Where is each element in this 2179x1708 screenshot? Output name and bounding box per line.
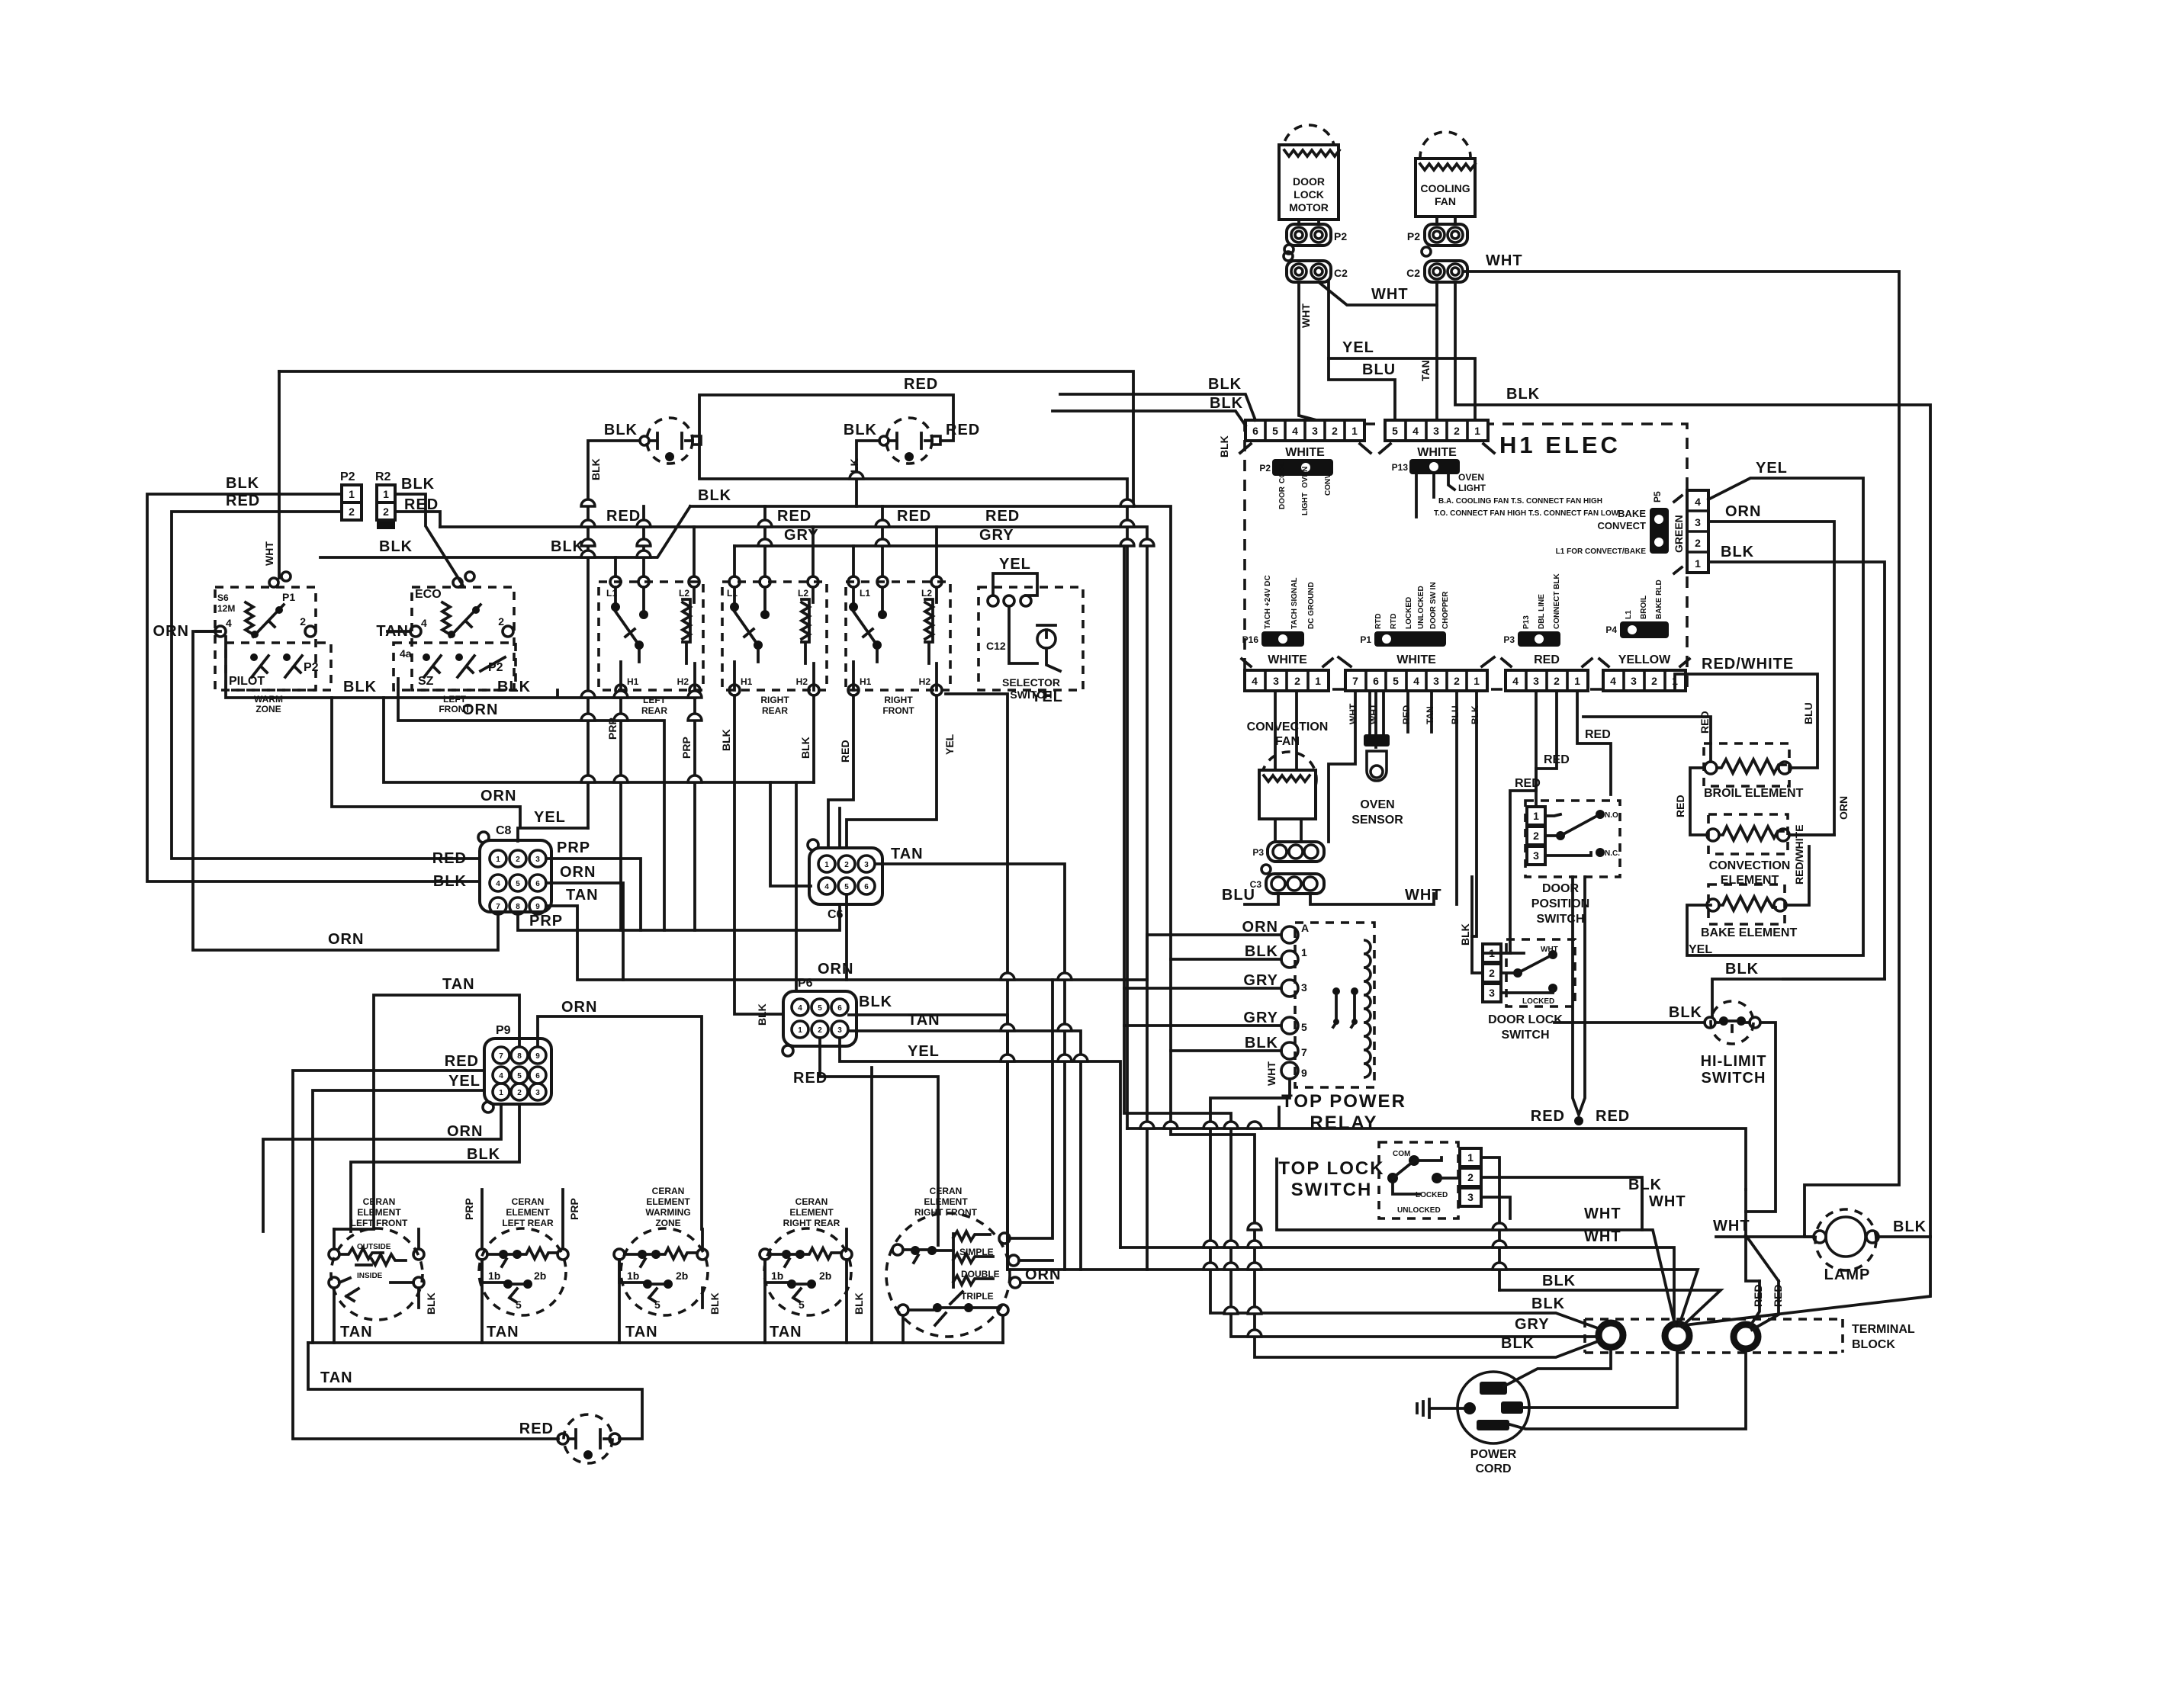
- svg-text:MOTOR: MOTOR: [1289, 201, 1329, 213]
- C8 connector: [478, 824, 551, 914]
- conv element right wire: [1789, 833, 1834, 836]
- svg-text:HI-LIMIT: HI-LIMIT: [1701, 1053, 1767, 1070]
- svg-text:WHITE: WHITE: [1268, 653, 1307, 666]
- svg-text:ORN: ORN: [447, 1123, 483, 1140]
- svg-text:POWER: POWER: [1470, 1448, 1517, 1461]
- svg-text:2: 2: [349, 506, 355, 518]
- svg-text:P2: P2: [1407, 230, 1420, 242]
- svg-text:WHT: WHT: [1486, 252, 1523, 269]
- svg-text:ZONE: ZONE: [256, 704, 281, 714]
- svg-text:SZ: SZ: [418, 675, 434, 688]
- svg-text:RTD: RTD: [1374, 613, 1383, 629]
- ceran element warming zone: [614, 1186, 708, 1315]
- svg-text:CONVECTION: CONVECTION: [1709, 859, 1791, 872]
- svg-text:5: 5: [654, 1299, 660, 1311]
- P9 connector: [263, 976, 702, 1439]
- svg-text:YEL: YEL: [448, 1073, 480, 1090]
- svg-text:4: 4: [798, 1004, 802, 1013]
- svg-text:P5: P5: [1652, 491, 1663, 502]
- oven sensor: [1351, 691, 1403, 827]
- svg-text:H1: H1: [627, 676, 639, 687]
- svg-text:CONVECTION: CONVECTION: [1247, 721, 1329, 734]
- svg-text:WHITE: WHITE: [1417, 446, 1457, 459]
- svg-text:RED: RED: [1772, 1284, 1784, 1307]
- long TAN wire to push switch: [308, 1343, 642, 1439]
- terminal 1: [1599, 1323, 1623, 1347]
- svg-text:ORN: ORN: [480, 788, 516, 804]
- svg-text:GRY: GRY: [1243, 1010, 1278, 1026]
- svg-text:CONNECT BLK: CONNECT BLK: [1553, 573, 1561, 629]
- svg-text:RED: RED: [1515, 777, 1541, 790]
- svg-text:6: 6: [837, 1004, 842, 1013]
- svg-text:CONV: CONV: [1324, 474, 1332, 496]
- svg-text:DOOR: DOOR: [1278, 486, 1287, 509]
- WHT drop to pilot: [278, 371, 281, 578]
- svg-text:5: 5: [799, 1299, 805, 1311]
- svg-text:YEL: YEL: [1756, 460, 1788, 477]
- svg-text:RIGHT: RIGHT: [760, 695, 789, 705]
- infinite switch RIGHT FRONT: [828, 506, 956, 856]
- ceran element left rear: [477, 1196, 568, 1315]
- svg-text:RELAY: RELAY: [1310, 1112, 1377, 1133]
- svg-text:3: 3: [864, 861, 869, 869]
- svg-text:2: 2: [516, 856, 520, 864]
- svg-text:2: 2: [1695, 537, 1701, 549]
- svg-text:2: 2: [1651, 675, 1657, 687]
- svg-text:4: 4: [496, 880, 500, 888]
- power cord: [1417, 1350, 1746, 1475]
- svg-text:6: 6: [1252, 425, 1258, 437]
- wire TAN cooling C2 left down to P13 pin3: [1435, 282, 1438, 420]
- ceran element right rear: [760, 1196, 852, 1315]
- svg-text:6: 6: [864, 883, 869, 891]
- svg-text:1: 1: [798, 1026, 802, 1035]
- svg-text:2: 2: [498, 615, 504, 628]
- svg-text:WHT: WHT: [1541, 945, 1558, 954]
- svg-text:9: 9: [535, 903, 540, 911]
- svg-text:BLU: BLU: [1222, 887, 1255, 904]
- svg-text:OVEN: OVEN: [1360, 798, 1394, 811]
- svg-text:R2: R2: [375, 470, 391, 483]
- svg-text:1: 1: [824, 861, 829, 869]
- svg-text:WHT: WHT: [1584, 1228, 1621, 1245]
- svg-text:RED: RED: [519, 1421, 554, 1437]
- push switch bottom: [519, 1414, 620, 1463]
- svg-text:TAN: TAN: [625, 1324, 658, 1340]
- svg-text:RED: RED: [1534, 653, 1560, 666]
- svg-text:DOOR SW IN: DOOR SW IN: [1429, 582, 1438, 629]
- lamp: [1805, 1209, 1930, 1283]
- svg-text:BLK: BLK: [1669, 1004, 1702, 1021]
- svg-text:RED: RED: [897, 508, 931, 525]
- drops from elements up: [480, 1189, 484, 1249]
- convection element: [1707, 814, 1790, 887]
- svg-text:3: 3: [1489, 987, 1495, 999]
- svg-text:5: 5: [1393, 675, 1399, 687]
- door lock motor: [1279, 125, 1339, 220]
- svg-text:3: 3: [1467, 1191, 1474, 1203]
- svg-text:POSITION: POSITION: [1531, 897, 1589, 910]
- svg-text:2: 2: [1489, 967, 1495, 979]
- svg-text:P2: P2: [488, 661, 503, 674]
- svg-text:5: 5: [1301, 1021, 1307, 1033]
- svg-text:2b: 2b: [676, 1270, 688, 1282]
- svg-text:BLK: BLK: [720, 729, 732, 751]
- svg-text:SIMPLE: SIMPLE: [959, 1247, 994, 1257]
- svg-text:P1: P1: [1360, 634, 1371, 645]
- svg-text:WHT: WHT: [1371, 286, 1409, 303]
- svg-text:L1: L1: [727, 588, 738, 599]
- svg-text:LOCKED: LOCKED: [1416, 1191, 1448, 1199]
- svg-text:PRP: PRP: [529, 913, 563, 929]
- svg-text:5: 5: [1392, 425, 1398, 437]
- svg-text:1: 1: [1574, 675, 1580, 687]
- svg-text:OVEN: OVEN: [1301, 467, 1310, 488]
- R2 connector: [375, 470, 439, 529]
- svg-text:BLK: BLK: [799, 737, 812, 759]
- svg-text:RED: RED: [1596, 1108, 1630, 1125]
- svg-text:GRY: GRY: [979, 527, 1014, 544]
- RED/WHITE wire from P4 pin1 to broil right: [1675, 674, 1817, 768]
- bottom strip P4 (4 3 2 1) YELLOW: [1599, 579, 1689, 691]
- svg-text:CORD: CORD: [1475, 1462, 1511, 1475]
- infinite switch RIGHT REAR: [720, 506, 827, 1014]
- svg-text:SENSOR: SENSOR: [1351, 814, 1403, 827]
- svg-text:2: 2: [818, 1026, 822, 1035]
- svg-text:L1: L1: [860, 588, 870, 599]
- svg-text:9: 9: [1301, 1067, 1307, 1079]
- svg-text:RED: RED: [445, 1053, 479, 1070]
- svg-text:BLK: BLK: [1531, 1295, 1565, 1312]
- svg-text:WHT: WHT: [1265, 1061, 1278, 1086]
- svg-text:BLK: BLK: [1245, 1035, 1278, 1051]
- svg-text:INSIDE: INSIDE: [357, 1272, 383, 1280]
- svg-text:ORN: ORN: [818, 961, 853, 978]
- GRY bus y716: [734, 546, 1281, 1026]
- svg-text:FRONT: FRONT: [882, 705, 914, 716]
- svg-text:SWITCH: SWITCH: [1291, 1180, 1373, 1200]
- wire ORN from P5 pin3: [1708, 522, 1834, 835]
- svg-text:BLK: BLK: [1459, 923, 1471, 945]
- connector strip P13 top (5..1): [1380, 420, 1619, 518]
- svg-text:BLOCK: BLOCK: [1852, 1338, 1895, 1351]
- svg-text:P2: P2: [1259, 463, 1271, 474]
- svg-text:TAN: TAN: [891, 846, 924, 862]
- door position switch: [1525, 801, 1621, 926]
- svg-text:4: 4: [1695, 496, 1701, 508]
- svg-text:DC GROUND: DC GROUND: [1307, 582, 1316, 629]
- svg-text:3: 3: [535, 856, 540, 864]
- svg-text:TOP POWER: TOP POWER: [1281, 1091, 1406, 1112]
- svg-text:BLK: BLK: [433, 873, 467, 890]
- svg-text:YELLOW: YELLOW: [1618, 653, 1671, 666]
- BLK line y731: [320, 506, 690, 557]
- svg-text:BLK: BLK: [425, 1292, 437, 1315]
- PRP line under C8: [518, 808, 840, 930]
- svg-text:YEL: YEL: [1342, 339, 1374, 356]
- svg-text:TAN: TAN: [320, 1369, 353, 1386]
- svg-text:1: 1: [1533, 810, 1539, 822]
- svg-text:L1 FOR CONVECT/BAKE: L1 FOR CONVECT/BAKE: [1556, 547, 1647, 556]
- svg-text:RIGHT REAR: RIGHT REAR: [783, 1218, 840, 1228]
- svg-text:PRP: PRP: [557, 840, 590, 856]
- P6 connector: [756, 977, 1120, 1270]
- svg-text:BLK: BLK: [1725, 961, 1759, 978]
- svg-text:C2: C2: [1334, 267, 1348, 279]
- element interconnect wires: [1690, 768, 1707, 835]
- svg-text:BLK: BLK: [1208, 376, 1242, 393]
- svg-text:2: 2: [844, 861, 849, 869]
- svg-text:BROIL: BROIL: [1640, 596, 1648, 619]
- svg-text:LOCKED: LOCKED: [1522, 997, 1554, 1006]
- long top wire: [279, 371, 1133, 506]
- svg-text:RED: RED: [1674, 795, 1686, 817]
- svg-text:3: 3: [1312, 425, 1318, 437]
- svg-text:2: 2: [300, 615, 306, 628]
- svg-text:6: 6: [1373, 675, 1379, 687]
- svg-text:4: 4: [1610, 675, 1616, 687]
- svg-text:6: 6: [535, 880, 540, 888]
- svg-text:PRP: PRP: [568, 1198, 580, 1220]
- svg-text:ECO: ECO: [415, 588, 442, 601]
- svg-text:7: 7: [1352, 675, 1358, 687]
- svg-text:PRP: PRP: [680, 737, 693, 759]
- door lock switch: [1459, 923, 1575, 1042]
- svg-text:N.C.: N.C.: [1605, 849, 1620, 858]
- svg-text:7: 7: [499, 1052, 503, 1061]
- wires into terminal 1: [1210, 1079, 1600, 1329]
- svg-text:ORN: ORN: [153, 623, 189, 640]
- svg-text:P13: P13: [1392, 462, 1409, 473]
- svg-text:COM: COM: [1393, 1150, 1410, 1158]
- svg-text:TACH SIGNAL: TACH SIGNAL: [1290, 577, 1299, 629]
- svg-text:4: 4: [1252, 675, 1258, 687]
- svg-text:ELEMENT: ELEMENT: [646, 1196, 690, 1207]
- cooling fan connector C2: [1406, 261, 1467, 282]
- svg-text:2: 2: [383, 506, 389, 518]
- push switch 1: [588, 418, 701, 828]
- svg-text:ORN: ORN: [1725, 503, 1761, 520]
- svg-text:B.A. COOLING FAN T.S. CONNECT: B.A. COOLING FAN T.S. CONNECT FAN HIGH: [1438, 497, 1602, 506]
- svg-text:6: 6: [535, 1072, 540, 1080]
- svg-text:RED: RED: [1531, 1108, 1565, 1125]
- svg-text:L1: L1: [1625, 610, 1633, 619]
- svg-text:P4: P4: [1605, 624, 1617, 635]
- svg-text:LAMP: LAMP: [1824, 1267, 1871, 1283]
- svg-text:2b: 2b: [819, 1270, 831, 1282]
- top power relay: [1281, 922, 1406, 1133]
- terminal block dashed box: [1585, 1319, 1843, 1353]
- hi-limit switch: [1669, 1001, 1767, 1087]
- svg-text:TRIPLE: TRIPLE: [961, 1291, 994, 1302]
- svg-text:BLK: BLK: [590, 458, 602, 480]
- svg-text:TAN: TAN: [340, 1324, 373, 1340]
- svg-text:RED: RED: [1544, 753, 1570, 766]
- svg-text:ELEMENT: ELEMENT: [506, 1207, 550, 1218]
- svg-text:YEL: YEL: [999, 556, 1031, 573]
- svg-text:FAN: FAN: [1435, 195, 1456, 207]
- svg-text:ELEMENT: ELEMENT: [924, 1196, 968, 1207]
- svg-text:YEL: YEL: [1689, 943, 1712, 956]
- svg-text:FAN: FAN: [1275, 735, 1300, 748]
- svg-text:RED: RED: [1401, 705, 1412, 724]
- svg-text:5: 5: [516, 1299, 522, 1311]
- svg-text:WHT: WHT: [1649, 1193, 1686, 1210]
- svg-text:RED/WHITE: RED/WHITE: [1702, 656, 1794, 673]
- svg-text:REAR: REAR: [641, 705, 667, 716]
- svg-text:BLK: BLK: [551, 538, 584, 555]
- svg-text:BLK: BLK: [343, 679, 377, 695]
- svg-text:L2: L2: [679, 588, 689, 599]
- bake right wire up: [1786, 846, 1809, 905]
- svg-text:2: 2: [1533, 830, 1539, 842]
- convection fan: [1222, 721, 1442, 904]
- svg-text:WHT: WHT: [263, 541, 275, 566]
- svg-text:BLK: BLK: [1245, 943, 1278, 960]
- svg-text:A: A: [1301, 922, 1309, 934]
- wire WHT door lock C2 left down to board: [1299, 282, 1316, 420]
- svg-text:CONVECT: CONVECT: [1597, 520, 1646, 531]
- svg-text:C6: C6: [828, 908, 844, 921]
- svg-text:1: 1: [349, 488, 355, 500]
- svg-text:DOOR LOCK: DOOR LOCK: [1488, 1013, 1563, 1026]
- svg-text:1: 1: [1474, 675, 1480, 687]
- svg-text:ELEMENT: ELEMENT: [789, 1207, 834, 1218]
- ORN under C8: [193, 631, 498, 950]
- svg-text:BLK: BLK: [1628, 1177, 1662, 1193]
- svg-text:ORN: ORN: [462, 701, 498, 718]
- svg-text:RED/WHITE: RED/WHITE: [1793, 824, 1805, 884]
- svg-text:3: 3: [1533, 849, 1539, 862]
- selector switch: [946, 556, 1083, 1270]
- svg-text:3: 3: [837, 1026, 842, 1035]
- svg-text:DOUBLE: DOUBLE: [961, 1269, 1000, 1279]
- svg-text:2: 2: [1294, 675, 1300, 687]
- BLK / ORN lines below pilot: [226, 637, 696, 698]
- svg-text:BLK: BLK: [401, 476, 435, 493]
- infinite switch LEFT REAR: [599, 506, 703, 930]
- svg-text:ORN: ORN: [1242, 919, 1278, 936]
- svg-text:UNLOCKED: UNLOCKED: [1417, 586, 1425, 629]
- svg-text:C2: C2: [1406, 267, 1420, 279]
- P16 wires down to convection fan: [1275, 691, 1297, 770]
- svg-text:DOOR: DOOR: [1293, 175, 1325, 188]
- svg-text:LEFT REAR: LEFT REAR: [502, 1218, 554, 1228]
- svg-text:TERMINAL: TERMINAL: [1852, 1323, 1915, 1336]
- svg-text:8: 8: [516, 903, 520, 911]
- RED bus y691: [440, 527, 1147, 1270]
- door lock motor connector C2: [1284, 252, 1348, 282]
- BLK wire bake loop to hi-limit: [1712, 979, 1885, 1017]
- svg-text:1: 1: [499, 1089, 503, 1097]
- TAN bus under elements: [334, 1260, 1003, 1343]
- svg-text:4: 4: [1412, 425, 1419, 437]
- svg-text:3: 3: [1433, 425, 1439, 437]
- svg-text:PRP: PRP: [463, 1198, 475, 1220]
- svg-text:RED: RED: [946, 422, 980, 438]
- terminal 3: [1734, 1324, 1758, 1349]
- svg-text:TAN: TAN: [487, 1324, 519, 1340]
- svg-text:1b: 1b: [488, 1270, 500, 1282]
- svg-text:1: 1: [496, 856, 500, 864]
- wire WHT cooling fan to right edge: [1464, 271, 1899, 1235]
- svg-text:BAKE RLD: BAKE RLD: [1655, 579, 1663, 619]
- broil element: [1704, 743, 1804, 800]
- svg-text:SELECTOR: SELECTOR: [1002, 676, 1060, 689]
- svg-text:BLK: BLK: [756, 1003, 768, 1026]
- GREEN connector P5: [1556, 490, 1708, 573]
- wire YEL from P5 pin4: [1687, 478, 1863, 955]
- svg-text:BLU: BLU: [1450, 705, 1461, 724]
- svg-text:4: 4: [1292, 425, 1298, 437]
- svg-text:BLK: BLK: [709, 1292, 721, 1315]
- svg-text:3: 3: [1301, 981, 1307, 994]
- svg-text:C12: C12: [986, 640, 1006, 652]
- wire WHT into lamp from left: [1716, 1235, 1814, 1238]
- svg-text:H1 ELEC: H1 ELEC: [1499, 432, 1621, 458]
- svg-text:BLK: BLK: [1721, 544, 1754, 560]
- svg-text:RED: RED: [793, 1070, 828, 1087]
- svg-text:BLU: BLU: [1802, 702, 1814, 724]
- svg-text:1: 1: [1301, 946, 1307, 958]
- WHT wire from top lock area down: [1641, 1181, 1644, 1218]
- svg-text:C8: C8: [496, 824, 512, 837]
- wire YEL: [1329, 282, 1475, 420]
- svg-text:P13: P13: [1522, 615, 1531, 629]
- svg-text:COOLING: COOLING: [1420, 182, 1470, 194]
- svg-text:P9: P9: [496, 1024, 511, 1037]
- svg-text:P2: P2: [304, 661, 319, 674]
- svg-text:1: 1: [1474, 425, 1480, 437]
- svg-text:TAN: TAN: [566, 887, 599, 904]
- svg-text:RED: RED: [1585, 728, 1611, 741]
- svg-text:H2: H2: [677, 676, 689, 687]
- wire BLK from P5 pin1: [1708, 562, 1885, 979]
- svg-text:BAKE: BAKE: [1618, 508, 1646, 519]
- svg-text:RED: RED: [432, 850, 467, 867]
- svg-text:WHITE: WHITE: [1285, 446, 1325, 459]
- svg-text:2: 2: [1554, 675, 1560, 687]
- svg-text:WHT: WHT: [1300, 303, 1312, 328]
- svg-text:BLK: BLK: [853, 1292, 865, 1315]
- svg-text:1: 1: [1467, 1151, 1474, 1164]
- H1 ELEC dashed outline: [1245, 424, 1687, 689]
- svg-text:REAR: REAR: [762, 705, 788, 716]
- svg-text:BLK: BLK: [467, 1146, 500, 1163]
- svg-text:RED: RED: [1699, 711, 1711, 734]
- P2 connector (left): [340, 470, 362, 520]
- bottom strip P16 (4 3 2 1) WHITE: [1242, 575, 1332, 691]
- svg-text:3: 3: [535, 1089, 540, 1097]
- svg-text:SWITCH: SWITCH: [1501, 1029, 1549, 1042]
- svg-text:CERAN: CERAN: [652, 1186, 685, 1196]
- svg-text:ELEMENT: ELEMENT: [357, 1207, 401, 1218]
- svg-text:ORN: ORN: [328, 931, 364, 948]
- svg-text:RED: RED: [985, 508, 1020, 525]
- svg-text:2: 2: [1467, 1171, 1474, 1183]
- PILOT inner P2 switch: [226, 643, 331, 690]
- svg-text:WHT: WHT: [1348, 703, 1358, 724]
- svg-text:YEL: YEL: [908, 1043, 940, 1060]
- svg-text:RED: RED: [839, 740, 851, 762]
- C8 right wires: [546, 859, 641, 930]
- svg-text:YEL: YEL: [1031, 689, 1063, 705]
- svg-text:WHT: WHT: [1584, 1206, 1621, 1222]
- svg-text:12M: 12M: [217, 603, 235, 614]
- svg-text:CERAN: CERAN: [930, 1186, 963, 1196]
- svg-text:2: 2: [1454, 675, 1460, 687]
- svg-text:N.O.: N.O.: [1605, 811, 1621, 820]
